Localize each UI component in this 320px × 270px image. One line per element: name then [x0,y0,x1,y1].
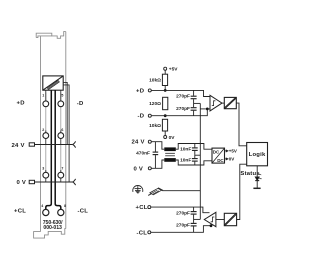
svg-text:8: 8 [64,204,66,208]
resistor R1 10k [162,74,167,85]
wire isolator to Logik [236,103,246,146]
module latch foot [36,36,52,38]
capacitor 10nF bottom [192,154,198,165]
functional earth symbol [133,186,143,193]
svg-text:+D: +D [17,100,25,106]
0V field-supply row line with connector square [29,180,72,183]
wire choke top to dcdc [176,144,212,150]
svg-text:+CL: +CL [136,205,148,211]
svg-text:0 V: 0 V [17,180,27,186]
wire caps midpoint to shield bus [194,218,201,220]
DC/DC converter [212,148,225,163]
terminal circle 4 [43,209,49,215]
wire U2 to clock isolator [216,219,224,221]
svg-text:270pF: 270pF [176,106,190,112]
isolator diagonal hatch [224,97,236,108]
svg-text:3: 3 [42,166,44,170]
module left edge [40,36,42,232]
DC/DC diagonal [212,148,225,163]
capacitor C1 270pF [191,90,197,107]
wire R3 to 0V terminal [164,131,166,136]
svg-text:-CL: -CL [137,230,148,236]
wire +CL line [151,207,210,213]
svg-text:+5V: +5V [169,67,178,73]
terminal circle 1 [43,101,49,107]
svg-text:10kΩ: 10kΩ [149,123,161,129]
terminal -D [148,114,151,117]
node +D [164,89,167,92]
svg-text:-CL: -CL [78,208,89,214]
capacitor C3 270pF [191,207,197,223]
svg-text:470nF: 470nF [136,150,150,156]
svg-text:4: 4 [41,204,43,208]
node -D [164,114,167,117]
capacitor C4 270pF [191,223,197,232]
wire 0V to choke [151,160,164,168]
svg-text:6: 6 [61,128,63,132]
comparator U1 [210,95,222,111]
0V row jumper-contact arc [72,179,75,185]
svg-text:+D: +D [136,88,144,94]
module right edge [65,32,67,229]
node comparator reference [206,108,209,111]
svg-text:+CL: +CL [14,208,26,214]
+5V terminal [164,67,167,70]
svg-text:24 V: 24 V [132,140,145,146]
DC/DC +5V output arrow [225,150,229,152]
terminal -CL [148,231,151,234]
wire +D line [151,90,210,96]
capacitor 470nF [153,142,159,169]
column A contact wire (terminals 1-4) [45,93,47,173]
isolator (data) [224,97,236,108]
choke winding top [164,147,176,151]
svg-text:120Ω: 120Ω [149,101,161,107]
isolator (clock) [224,213,236,225]
svg-text:0V: 0V [229,157,235,162]
svg-text:10kΩ: 10kΩ [149,77,161,83]
capacitor C2 270pF [191,108,197,116]
svg-text:270pF: 270pF [176,211,190,217]
wire rail contact to shield bus [163,190,200,192]
wire R1 to +D node [164,86,166,91]
isolation hatch band in box [47,80,60,90]
wire 24V to choke [151,142,164,150]
column B contact wire (terminals 5-8) [60,93,62,173]
rail contact symbol [148,188,163,195]
terminal circle 7 [58,172,64,178]
terminal circle 5 [58,101,64,107]
capacitor 10nF top [192,144,198,155]
svg-text:24 V: 24 V [12,143,25,149]
node clock lower output [210,224,213,227]
svg-text:0 V: 0 V [134,166,144,172]
terminal circle 2 [43,133,49,139]
svg-text:10nF: 10nF [180,146,191,152]
wire U1 to isolator [222,102,224,104]
wire Logik to clock isolator [237,164,247,219]
filter common wire from caps midpoint [194,102,201,104]
svg-text:-D: -D [138,114,145,120]
resistor R3 10k [162,119,167,131]
wire +5V to R1 [164,70,166,74]
clock driver U2 [204,212,216,226]
module bottom foot profile [34,229,66,239]
svg-text:7: 7 [61,166,63,170]
DC/DC 0V output arrow [225,158,229,160]
terminal +D [148,89,151,92]
wires from box right side wrapping down [63,82,69,182]
terminal circle 6 [58,133,64,139]
status LED [253,166,262,189]
terminal 0V (pulldown) [164,136,167,139]
wire 10nF midpoint to shield bus [195,154,201,156]
svg-text:2: 2 [42,128,44,132]
terminal circle 3 [43,172,49,178]
long shield bus vertical [199,103,201,219]
svg-text:Logik: Logik [249,152,266,158]
choke core [165,153,175,156]
wire shield bus to comparator reference [200,108,206,110]
24V row jumper-contact arc [72,141,75,147]
svg-text:10nF: 10nF [180,158,191,164]
svg-text:270pF: 270pF [176,93,190,99]
svg-text:270pF: 270pF [176,223,190,229]
svg-text:+5V: +5V [229,149,237,154]
electronics box with isolation diagonal [43,76,63,90]
module top latch profile [36,32,66,39]
svg-text:-D: -D [77,101,84,107]
U2 hysteresis symbol [211,217,215,222]
svg-text:DC: DC [213,149,220,154]
24V field-supply row line with connector square [29,143,72,146]
terminal 24V [148,140,151,143]
Logik box [247,143,268,166]
terminal +CL [148,206,151,209]
terminal 0V [148,167,151,170]
resistor R2 120R [163,97,168,109]
svg-text:5: 5 [61,94,63,98]
clock isolator diagonal hatch [224,213,236,225]
svg-text:DC: DC [217,158,224,163]
svg-text:0V: 0V [169,135,176,141]
wire choke bottom to dcdc [176,160,212,165]
svg-text:1: 1 [42,94,44,98]
choke winding bottom [164,158,176,162]
U1 hysteresis symbol [212,101,216,106]
wire -CL line [151,226,212,233]
wire -D line [151,109,210,116]
thick internal bus pair with hooks to terminals 4 and 8 [46,90,61,209]
terminal circle 8 [58,209,64,215]
svg-text:000-013: 000-013 [43,225,62,231]
